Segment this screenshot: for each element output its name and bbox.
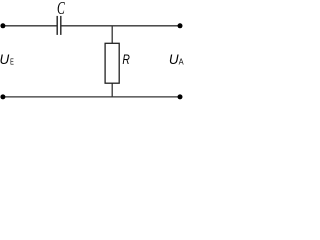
- svg-text:A: A: [179, 57, 184, 67]
- svg-text:U: U: [0, 51, 10, 67]
- svg-text:C: C: [57, 0, 65, 18]
- svg-text:E: E: [10, 57, 14, 67]
- svg-text:R: R: [122, 51, 129, 67]
